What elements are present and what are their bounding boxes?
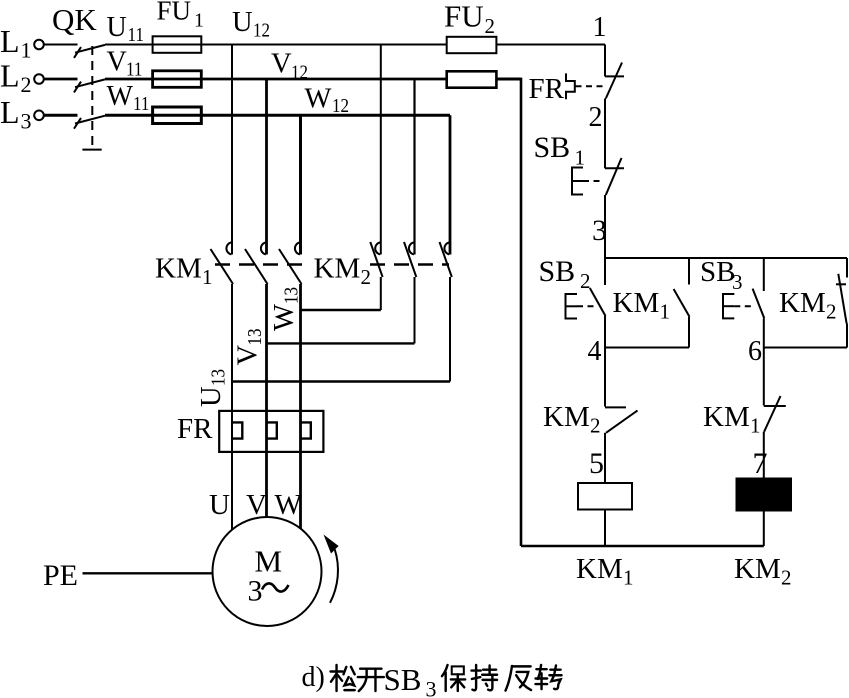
svg-text:FU: FU [157, 0, 192, 26]
svg-text:SB: SB [384, 662, 422, 697]
svg-text:2: 2 [485, 14, 496, 38]
svg-text:KM: KM [155, 253, 202, 285]
svg-text:KM: KM [314, 253, 361, 285]
svg-text:3: 3 [426, 677, 437, 698]
svg-text:1: 1 [623, 566, 634, 590]
svg-text:SB: SB [539, 255, 576, 288]
svg-text:1: 1 [750, 414, 761, 438]
svg-text:d): d) [302, 662, 325, 693]
svg-text:1: 1 [21, 38, 32, 63]
svg-text:FU: FU [444, 0, 484, 34]
svg-text:12: 12 [291, 62, 308, 84]
svg-text:3: 3 [732, 270, 743, 294]
svg-text:SB: SB [534, 131, 571, 164]
svg-text:2: 2 [589, 102, 603, 133]
svg-text:1: 1 [202, 265, 213, 289]
svg-text:11: 11 [126, 58, 143, 80]
svg-text:7: 7 [753, 447, 768, 480]
svg-text:V: V [246, 489, 267, 521]
svg-text:1: 1 [194, 10, 204, 32]
svg-text:M: M [255, 544, 283, 579]
svg-text:13: 13 [281, 287, 303, 304]
svg-text:KM: KM [576, 553, 623, 585]
svg-text:KM: KM [734, 553, 781, 585]
svg-text:FR: FR [529, 73, 565, 105]
svg-text:L: L [0, 23, 20, 59]
svg-text:5: 5 [589, 447, 604, 480]
svg-text:SB: SB [700, 256, 735, 288]
svg-text:13: 13 [244, 329, 266, 346]
svg-text:U: U [232, 7, 253, 38]
svg-text:W: W [107, 81, 134, 112]
svg-text:U: U [107, 12, 127, 43]
svg-text:6: 6 [748, 336, 762, 367]
svg-text:2: 2 [361, 265, 372, 289]
svg-text:V: V [107, 47, 127, 78]
svg-text:2: 2 [21, 72, 32, 97]
svg-text:U: U [196, 386, 227, 407]
svg-text:U: U [209, 489, 230, 521]
svg-text:V: V [233, 345, 264, 366]
svg-text:L: L [0, 94, 20, 130]
svg-text:2: 2 [781, 566, 792, 590]
svg-text:2: 2 [826, 300, 837, 324]
svg-text:W: W [269, 304, 300, 331]
svg-text:2: 2 [580, 269, 591, 293]
svg-text:3: 3 [248, 575, 263, 608]
svg-text:QK: QK [52, 2, 97, 37]
svg-text:3: 3 [592, 214, 607, 247]
svg-text:12: 12 [332, 95, 349, 117]
svg-text:4: 4 [588, 336, 602, 367]
svg-text:L: L [0, 58, 20, 94]
svg-text:KM: KM [543, 401, 590, 433]
svg-text:11: 11 [128, 24, 145, 46]
svg-text:13: 13 [208, 369, 230, 386]
svg-text:1: 1 [575, 146, 586, 170]
svg-text:1: 1 [593, 12, 607, 43]
svg-text:KM: KM [703, 401, 750, 433]
svg-text:3: 3 [21, 108, 32, 133]
svg-text:2: 2 [590, 414, 601, 438]
svg-text:12: 12 [253, 20, 270, 42]
svg-text:FR: FR [177, 413, 213, 445]
svg-text:1: 1 [660, 300, 671, 324]
svg-text:KM: KM [613, 287, 660, 319]
svg-text:PE: PE [43, 559, 78, 592]
svg-text:KM: KM [779, 287, 826, 319]
svg-text:11: 11 [133, 93, 150, 115]
svg-text:W: W [275, 489, 303, 521]
svg-text:W: W [305, 84, 332, 115]
svg-text:V: V [271, 49, 292, 80]
